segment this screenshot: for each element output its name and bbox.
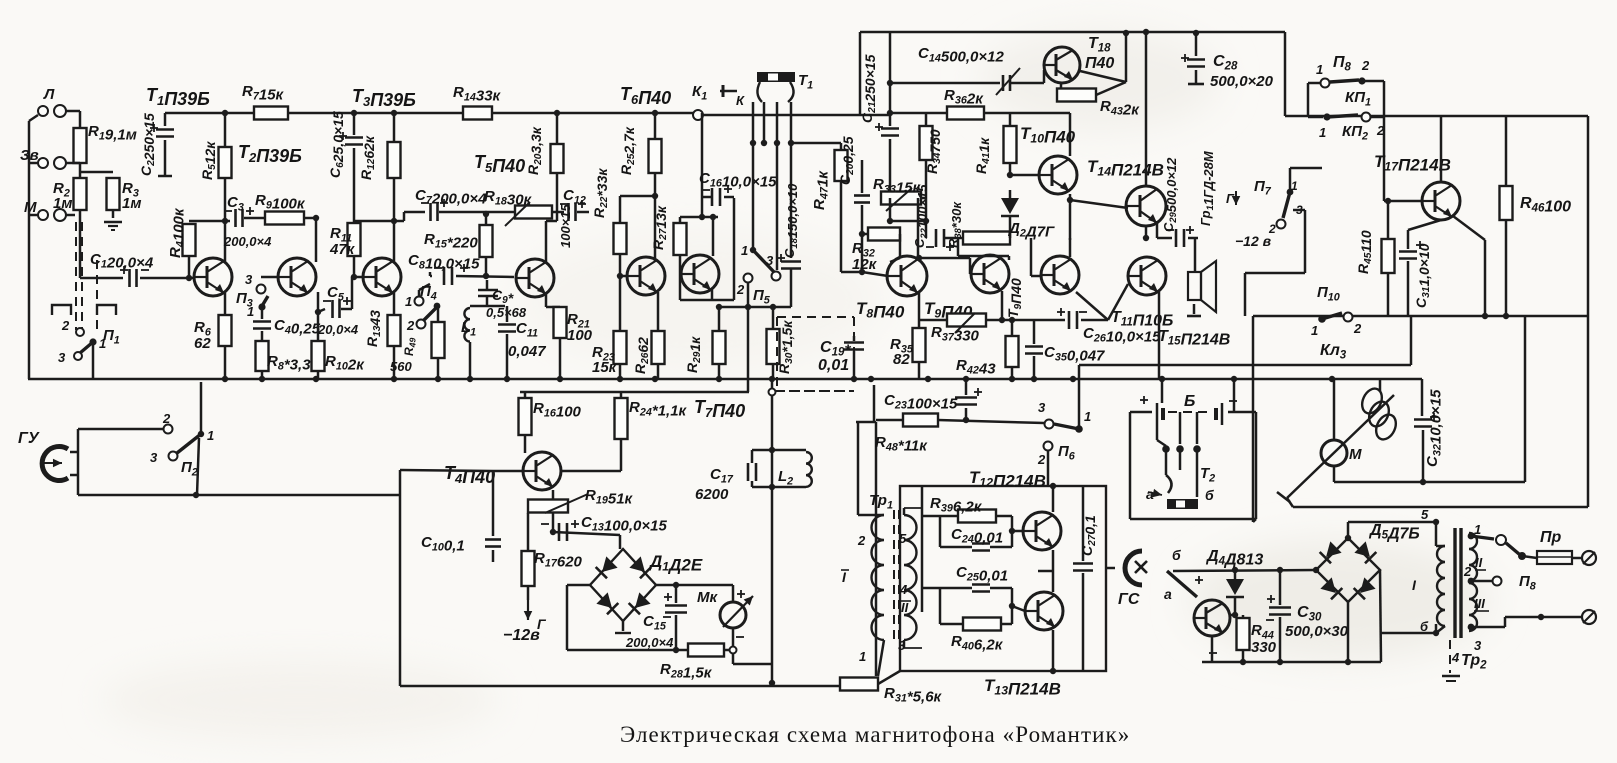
svg-text:2: 2 [1463,564,1472,579]
svg-text:II: II [1475,555,1483,570]
svg-text:2: 2 [1361,58,1370,73]
svg-text:1: 1 [405,294,412,309]
svg-text:К: К [736,93,745,108]
svg-text:4: 4 [1451,650,1460,665]
svg-text:4: 4 [899,582,908,597]
svg-text:ГУ: ГУ [18,430,40,447]
svg-text:Мк: Мк [697,589,718,606]
svg-text:500,0×20: 500,0×20 [1210,73,1274,90]
svg-text:Л: Л [43,86,55,103]
svg-text:С625,0×15: С625,0×15 [327,111,346,178]
svg-text:а: а [1146,486,1154,502]
svg-text:1: 1 [207,428,214,443]
svg-text:1: 1 [1084,409,1091,424]
svg-text:б: б [1420,619,1429,634]
svg-text:С311,0×10: С311,0×10 [1413,243,1432,308]
svg-text:3: 3 [150,450,158,465]
svg-text:2: 2 [736,282,745,297]
svg-text:47к: 47к [329,241,356,258]
svg-text:С810,0×15: С810,0×15 [408,252,480,272]
svg-text:200,0×4: 200,0×4 [625,635,674,650]
svg-text:20,0×4: 20,0×4 [317,322,359,337]
svg-text:1м: 1м [53,195,72,212]
svg-text:Пр: Пр [1540,529,1562,546]
svg-text:15к: 15к [592,359,618,376]
svg-text:1: 1 [859,649,866,664]
svg-text:0,047: 0,047 [508,343,546,360]
svg-text:2: 2 [1037,452,1046,467]
svg-text:ГС: ГС [1118,591,1140,608]
svg-text:12к: 12к [852,256,878,273]
svg-text:Г: Г [1226,191,1235,206]
svg-text:2: 2 [406,318,415,333]
svg-text:2: 2 [61,318,70,333]
svg-text:II: II [901,600,909,615]
svg-text:5: 5 [1421,507,1429,522]
svg-text:1: 1 [1316,62,1323,77]
svg-text:100×15: 100×15 [558,203,573,248]
svg-text:−12 в: −12 в [1235,233,1272,249]
svg-text:б: б [1172,547,1181,563]
svg-text:1: 1 [1291,179,1298,193]
svg-text:3: 3 [245,272,253,287]
svg-text:П40: П40 [1085,55,1114,72]
svg-text:3: 3 [766,253,774,268]
svg-text:2: 2 [162,411,171,426]
svg-text:Электрическая схема магнитоф: Электрическая схема магнитофона «Романти… [620,722,1130,747]
svg-text:Т11П10Б: Т11П10Б [1111,309,1173,330]
svg-text:2: 2 [857,533,866,548]
svg-text:82: 82 [893,351,910,368]
svg-text:М: М [24,199,37,216]
svg-text:С7200,0×4: С7200,0×4 [415,187,487,207]
svg-text:500,0×30: 500,0×30 [1285,623,1349,640]
svg-text:0,01: 0,01 [818,357,849,374]
svg-text:1м: 1м [122,195,141,212]
svg-text:Г: Г [537,616,547,632]
svg-text:1: 1 [741,243,748,258]
svg-text:1: 1 [1474,522,1481,537]
svg-text:100: 100 [567,327,593,344]
svg-text:1: 1 [1311,323,1318,338]
svg-text:а: а [1164,586,1172,602]
svg-text:3: 3 [898,638,906,653]
svg-text:5: 5 [899,531,907,546]
svg-text:Зв: Зв [20,147,39,164]
svg-text:б: б [1205,487,1214,503]
svg-text:62: 62 [194,335,211,352]
svg-text:560: 560 [390,359,412,374]
svg-text:Б: Б [1184,393,1195,410]
svg-text:М: М [1349,446,1362,463]
svg-text:2: 2 [1353,321,1362,336]
svg-text:3: 3 [1474,638,1482,653]
svg-text:−12в: −12в [503,627,540,644]
svg-text:3: 3 [58,350,66,365]
svg-text:330: 330 [1251,639,1277,656]
svg-text:1: 1 [1319,125,1326,140]
svg-text:200,0×4: 200,0×4 [223,234,272,249]
svg-text:III: III [1474,596,1485,611]
svg-text:С2250×15: С2250×15 [138,113,157,176]
svg-text:3: 3 [1038,400,1046,415]
svg-text:6200: 6200 [695,486,729,503]
